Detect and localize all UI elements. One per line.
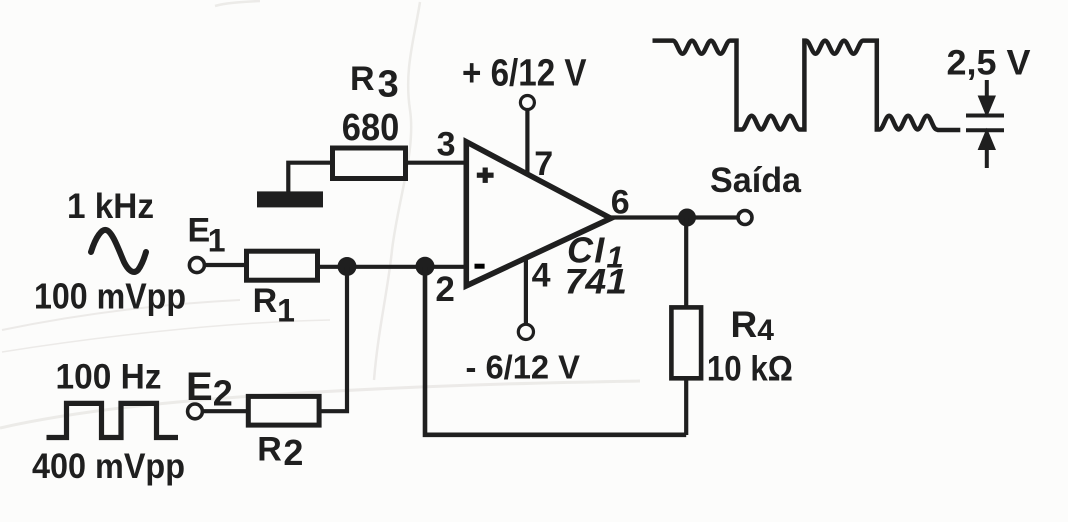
- op-amp plus sign: [477, 168, 494, 183]
- terminal E1: [189, 258, 204, 273]
- resistor R3: [333, 148, 406, 179]
- dimension arrow up: [981, 133, 993, 168]
- wire ground to R3: [288, 163, 334, 193]
- ground: [257, 191, 323, 207]
- wire R2 to E2: [203, 409, 249, 413]
- source S2 square wave symbol: [47, 403, 179, 437]
- resistor R4: [671, 307, 701, 378]
- junction node B: [416, 257, 435, 276]
- terminal V-: [518, 324, 533, 339]
- svg-text:3: 3: [437, 125, 456, 163]
- svg-text:E2: E2: [186, 365, 233, 413]
- svg-text:400 mVpp: 400 mVpp: [32, 447, 185, 486]
- dimension line upper: [966, 114, 1004, 118]
- svg-text:+ 6/12 V: + 6/12 V: [462, 53, 587, 95]
- junction node OUT: [678, 209, 696, 227]
- resistor R1: [247, 251, 318, 280]
- wire node A down to R2: [321, 267, 347, 412]
- svg-text:7: 7: [534, 145, 553, 183]
- dimension arrow down: [981, 80, 993, 113]
- svg-text:680: 680: [342, 107, 400, 149]
- terminal Saida: [738, 211, 752, 225]
- svg-text:1 kHz: 1 kHz: [67, 187, 154, 226]
- dimension line lower: [966, 128, 1004, 132]
- wire pin 4 to V-: [524, 259, 528, 324]
- wire R3 to op-amp pin 3: [404, 161, 466, 165]
- svg-text:2: 2: [435, 270, 454, 309]
- svg-text:100 Hz: 100 Hz: [56, 358, 162, 397]
- wire R4 to feedback rail: [684, 378, 688, 435]
- svg-text:Saída: Saída: [710, 161, 802, 200]
- output waveform: [653, 41, 961, 130]
- wire pin 7 to V+: [525, 110, 529, 174]
- resistor R2: [248, 396, 319, 425]
- source S1 sine symbol: [91, 230, 146, 272]
- svg-text:10 kΩ: 10 kΩ: [707, 350, 793, 389]
- svg-text:R3: R3: [350, 60, 399, 105]
- wire R1 to op-amp pin 2: [318, 265, 466, 269]
- svg-text:100 mVpp: 100 mVpp: [34, 276, 186, 317]
- svg-text:741: 741: [565, 263, 628, 302]
- svg-text:E1: E1: [188, 212, 226, 259]
- svg-text:- 6/12 V: - 6/12 V: [466, 348, 581, 385]
- svg-text:R2: R2: [257, 431, 303, 474]
- feedback wire node B to below R4: [425, 267, 686, 435]
- junction node A: [338, 257, 357, 276]
- wire E1 to R1: [205, 263, 247, 267]
- svg-text:4: 4: [532, 257, 551, 295]
- wire OUT junction down to R4: [684, 218, 688, 309]
- op-amp U1 CI1 triangle: [466, 142, 611, 286]
- svg-text:2,5 V: 2,5 V: [947, 44, 1032, 83]
- op-amp minus sign: [475, 264, 485, 269]
- terminal V+: [520, 96, 534, 110]
- svg-text:R4: R4: [731, 304, 775, 347]
- terminal E2: [188, 404, 203, 419]
- output wire pin 6 to Saida: [609, 215, 738, 219]
